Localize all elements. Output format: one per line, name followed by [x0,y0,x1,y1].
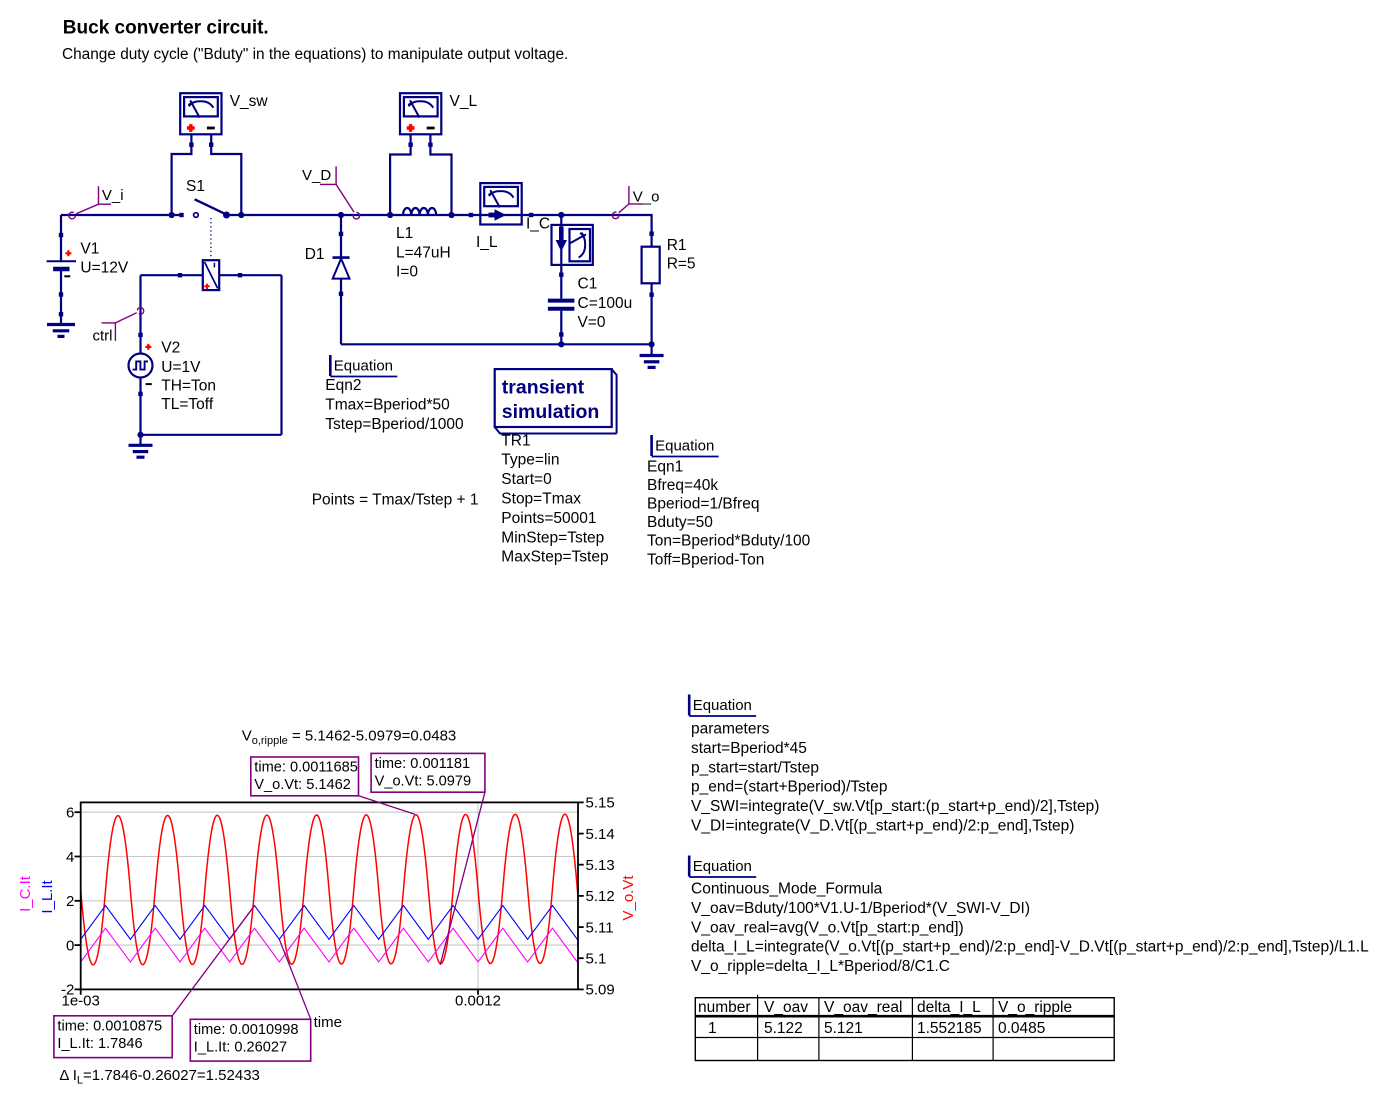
svg-text:I=0: I=0 [396,264,418,281]
svg-text:V_sw: V_sw [230,93,269,110]
svg-text:V_o: V_o [633,189,660,206]
svg-text:V2: V2 [161,339,180,356]
svg-text:Equation: Equation [693,697,752,714]
svg-text:number: number [698,999,751,1016]
svg-text:Equation: Equation [334,358,393,375]
svg-text:D1: D1 [305,246,325,263]
svg-text:Equation: Equation [693,858,752,875]
svg-text:time: 0.0010875: time: 0.0010875 [57,1018,162,1034]
svg-text:I_L.It: 1.7846: I_L.It: 1.7846 [57,1036,142,1052]
svg-text:time: time [314,1014,342,1031]
svg-text:V_oav: V_oav [764,999,808,1016]
svg-text:Eqn1: Eqn1 [647,458,683,475]
svg-text:Δ IL=1.7846-0.26027=1.52433: Δ IL=1.7846-0.26027=1.52433 [59,1067,260,1087]
svg-text:V_SWI=integrate(V_sw.Vt[p_star: V_SWI=integrate(V_sw.Vt[p_start:(p_start… [691,798,1099,815]
svg-text:V_o.Vt: V_o.Vt [620,875,637,921]
svg-text:0.0012: 0.0012 [455,993,501,1010]
svg-text:V1: V1 [80,241,99,258]
svg-text:Change duty cycle ("Bduty" in: Change duty cycle ("Bduty" in the equati… [62,46,568,63]
svg-text:4: 4 [66,849,74,866]
svg-text:V_DI=integrate(V_D.Vt[(p_start: V_DI=integrate(V_D.Vt[(p_start+p_end)/2:… [691,818,1074,835]
svg-text:Points = Tmax/Tstep + 1: Points = Tmax/Tstep + 1 [312,492,479,509]
svg-text:U=1V: U=1V [161,359,201,376]
svg-text:Continuous_Mode_Formula: Continuous_Mode_Formula [691,881,883,898]
svg-text:5.13: 5.13 [586,857,615,874]
svg-text:V_oav_real=avg(V_o.Vt[p_start:: V_oav_real=avg(V_o.Vt[p_start:p_end]) [691,919,964,936]
svg-text:V_o.Vt: 5.0979: V_o.Vt: 5.0979 [375,773,472,789]
svg-text:Type=lin: Type=lin [501,452,559,469]
svg-text:Tmax=Bperiod*50: Tmax=Bperiod*50 [325,396,450,413]
svg-text:delta_I_L: delta_I_L [917,999,981,1016]
svg-text:MaxStep=Tstep: MaxStep=Tstep [501,549,608,566]
svg-text:5.09: 5.09 [586,982,615,999]
svg-text:TR1: TR1 [501,432,530,449]
svg-text:Tstep=Bperiod/1000: Tstep=Bperiod/1000 [325,416,464,433]
svg-text:5.15: 5.15 [586,795,615,812]
svg-text:Bfreq=40k: Bfreq=40k [647,477,718,494]
svg-text:S1: S1 [186,178,205,195]
svg-text:C1: C1 [578,275,598,292]
svg-text:5.12: 5.12 [586,888,615,905]
svg-text:V_o_ripple: V_o_ripple [998,999,1072,1016]
svg-text:TL=Toff: TL=Toff [161,396,214,413]
svg-text:Bduty=50: Bduty=50 [647,514,713,531]
svg-text:6: 6 [66,805,74,822]
svg-text:parameters: parameters [691,721,770,738]
svg-text:1.552185: 1.552185 [917,1020,982,1037]
svg-text:5.11: 5.11 [586,919,614,936]
svg-text:ctrl: ctrl [93,328,113,345]
svg-text:Toff=Bperiod-Ton: Toff=Bperiod-Ton [647,551,764,568]
svg-text:0: 0 [66,937,74,954]
svg-text:V_oav_real: V_oav_real [824,999,902,1016]
svg-text:TH=Ton: TH=Ton [161,378,216,395]
svg-text:I_L.It: I_L.It [39,879,56,913]
svg-text:Buck converter circuit.: Buck converter circuit. [63,17,269,38]
svg-text:I_L: I_L [476,234,498,251]
svg-text:2: 2 [66,893,74,910]
svg-text:1e-03: 1e-03 [62,993,100,1010]
svg-text:p_end=(start+Bperiod)/Tstep: p_end=(start+Bperiod)/Tstep [691,779,887,796]
svg-text:0.0485: 0.0485 [998,1020,1045,1037]
svg-text:5.121: 5.121 [824,1020,863,1037]
svg-text:U=12V: U=12V [80,260,128,277]
svg-text:I_C.It: I_C.It [17,875,34,912]
svg-text:C=100u: C=100u [578,295,633,312]
svg-text:Ton=Bperiod*Bduty/100: Ton=Bperiod*Bduty/100 [647,533,811,550]
svg-text:R1: R1 [667,237,687,254]
svg-text:time: 0.0010998: time: 0.0010998 [194,1022,299,1038]
svg-text:V_D: V_D [302,167,331,184]
svg-text:Points=50001: Points=50001 [501,510,596,527]
svg-text:5.1: 5.1 [586,951,607,968]
svg-text:1: 1 [708,1020,717,1037]
svg-text:V=0: V=0 [578,314,606,331]
svg-text:MinStep=Tstep: MinStep=Tstep [501,529,604,546]
svg-text:start=Bperiod*45: start=Bperiod*45 [691,740,807,757]
svg-text:V_L: V_L [450,93,478,110]
svg-text:transient: transient [502,376,585,398]
svg-text:time: 0.001181: time: 0.001181 [375,756,470,772]
svg-text:time: 0.0011685: time: 0.0011685 [254,760,358,776]
svg-text:Stop=Tmax: Stop=Tmax [501,491,581,508]
svg-text:5.14: 5.14 [586,826,615,843]
svg-text:L1: L1 [396,225,413,242]
svg-text:5.122: 5.122 [764,1020,803,1037]
svg-text:simulation: simulation [502,401,600,423]
svg-text:p_start=start/Tstep: p_start=start/Tstep [691,759,819,776]
svg-text:L=47uH: L=47uH [396,244,451,261]
svg-text:V_o.Vt: 5.1462: V_o.Vt: 5.1462 [254,777,351,793]
svg-text:V_o_ripple=delta_I_L*Bperiod/8: V_o_ripple=delta_I_L*Bperiod/8/C1.C [691,958,950,975]
svg-text:V_oav=Bduty/100*V1.U-1/Bperiod: V_oav=Bduty/100*V1.U-1/Bperiod*(V_SWI-V_… [691,900,1030,917]
svg-text:I_C: I_C [526,215,550,232]
svg-text:Bperiod=1/Bfreq: Bperiod=1/Bfreq [647,496,759,513]
svg-text:Equation: Equation [655,438,714,455]
svg-text:delta_I_L=integrate(V_o.Vt[(p_: delta_I_L=integrate(V_o.Vt[(p_start+p_en… [691,939,1369,956]
svg-text:V_i: V_i [102,187,124,204]
svg-text:Eqn2: Eqn2 [325,377,361,394]
svg-text:I_L.It: 0.26027: I_L.It: 0.26027 [194,1039,287,1055]
svg-text:Start=0: Start=0 [501,471,552,488]
svg-text:R=5: R=5 [667,256,696,273]
